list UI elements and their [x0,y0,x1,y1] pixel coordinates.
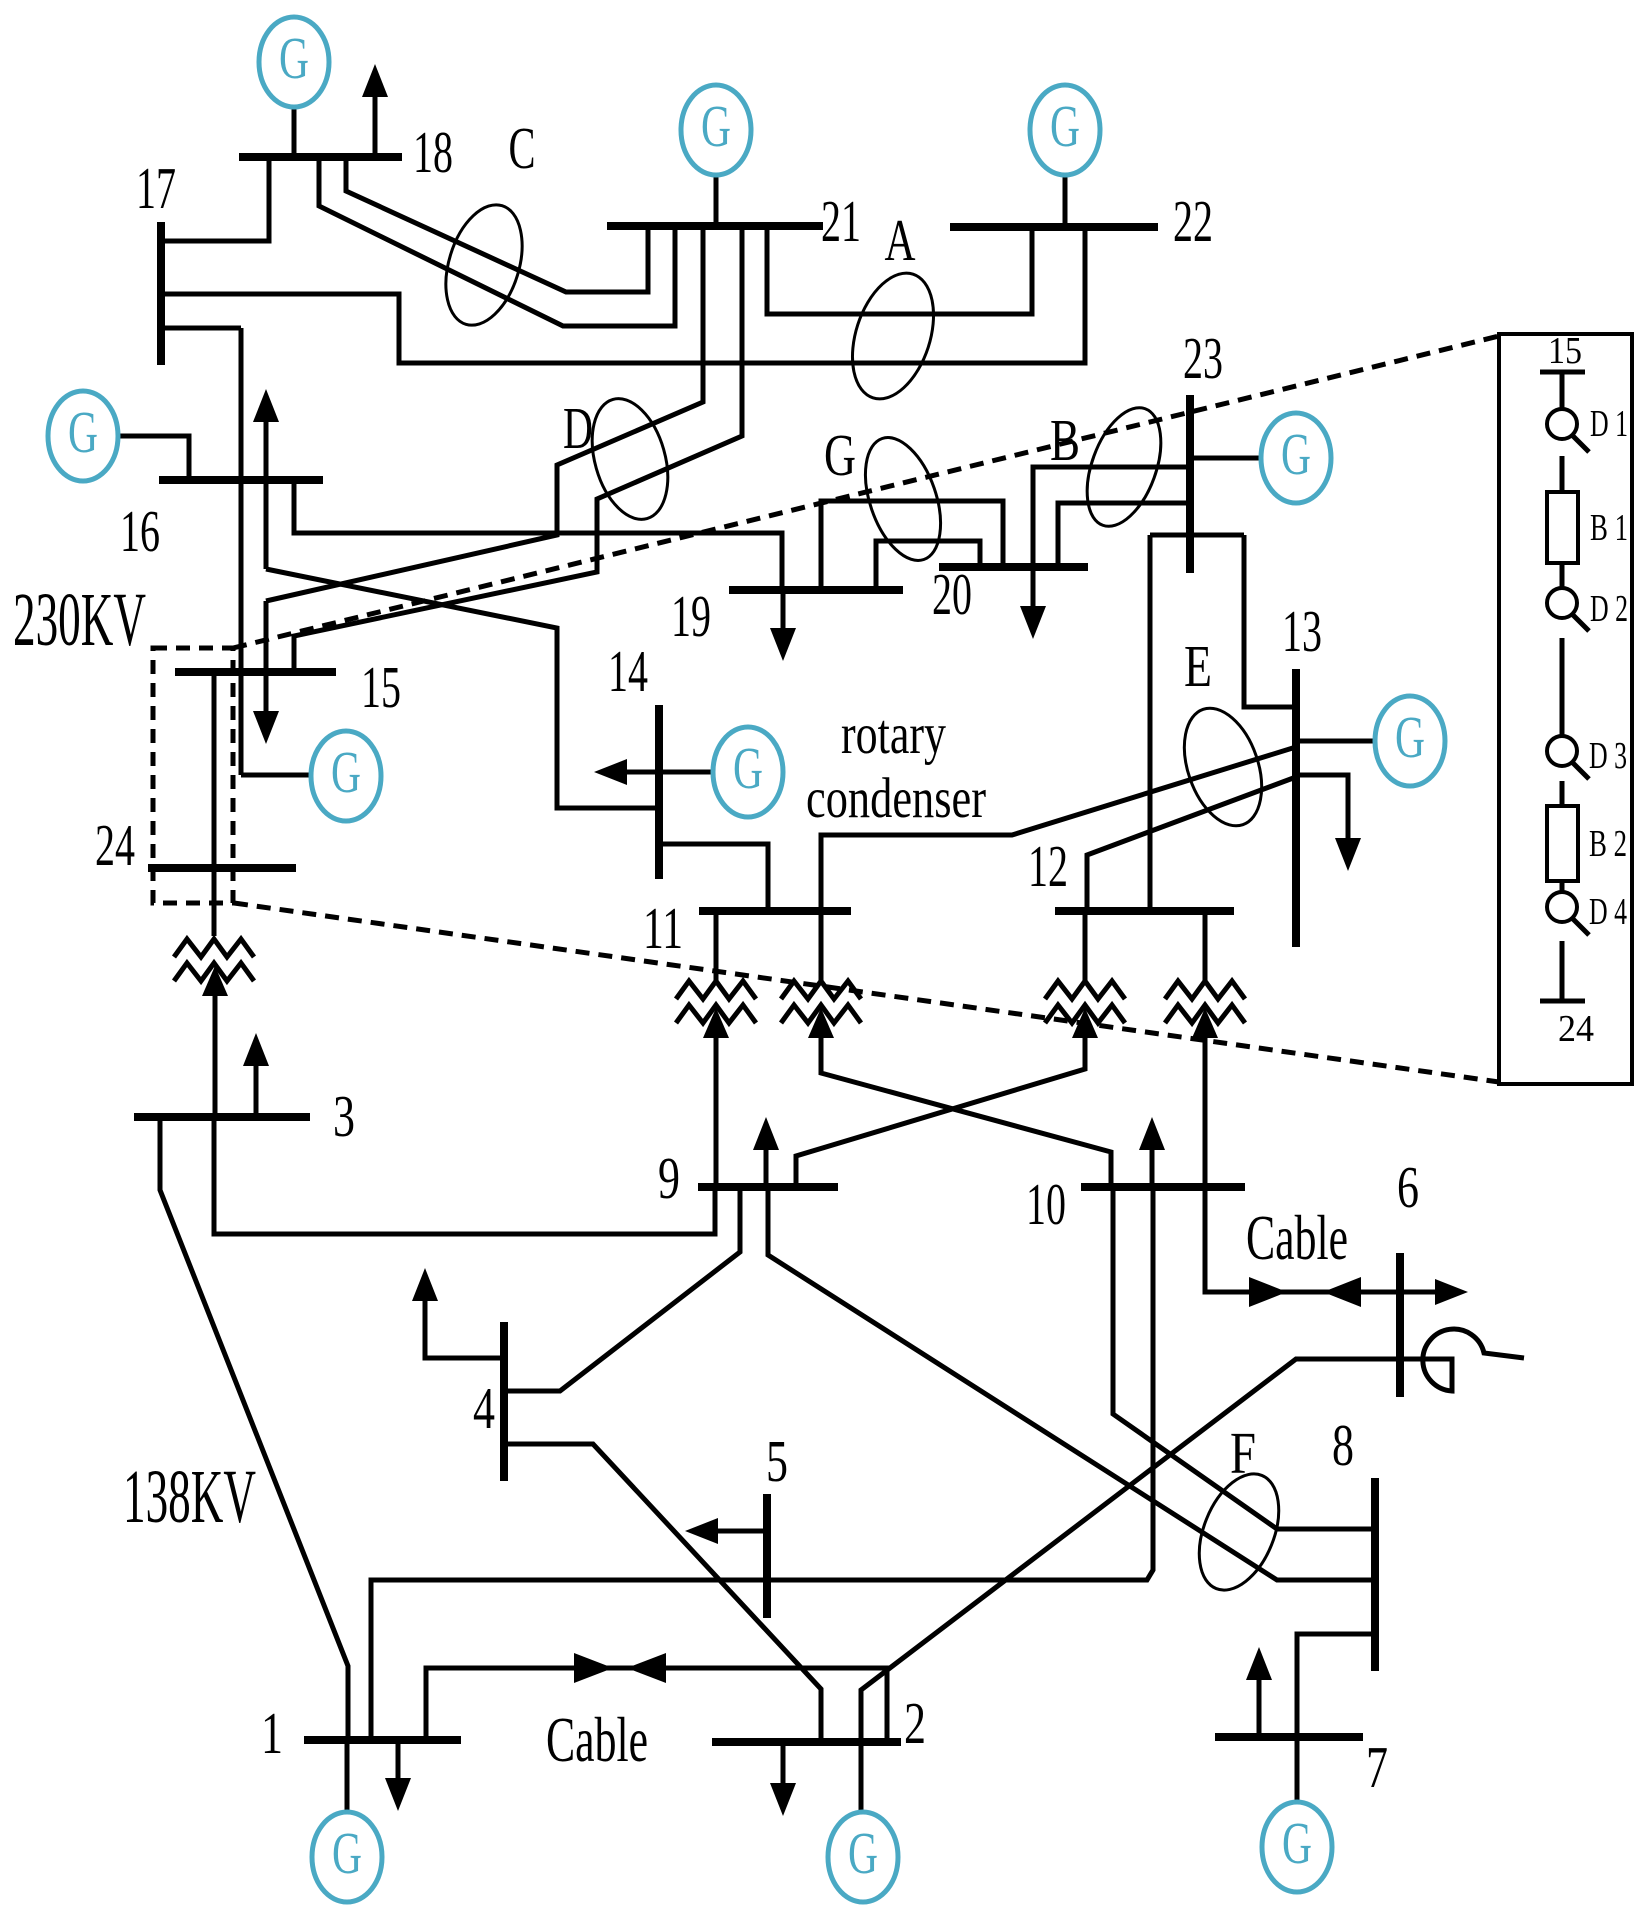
fault ellipse A [838,263,949,410]
bus 21 [607,222,823,230]
generator G at bus 13 [1375,696,1445,786]
wire 8-9 [768,1187,1375,1580]
svg-text:24: 24 [1558,1008,1594,1050]
svg-text:24: 24 [95,812,135,878]
svg-text:rotary: rotary [841,703,946,766]
generator G at bus 7 [1262,1802,1332,1892]
wire 16-17 vertical continuing to generator elbow at bus 15 [239,328,244,775]
svg-text:3: 3 [333,1083,355,1149]
wire 11-13 [821,747,1296,911]
wire 15-24 [212,672,217,936]
svg-text:G: G [1395,704,1425,770]
load arrow bus 3 [254,1063,259,1117]
wire 16-17 horizontal [161,326,241,331]
svg-text:B 1: B 1 [1590,507,1628,549]
generator G at bus 22 lead [1063,172,1068,227]
wire 19-20 circuit 2 [876,541,980,590]
svg-text:B: B [1050,407,1080,473]
transformer 10-11 stub [819,911,824,981]
wire 2-4 [504,1444,821,1742]
generator G at bus 21 [681,85,751,175]
bus 6 [1396,1253,1404,1397]
svg-text:D 3: D 3 [1589,735,1627,777]
transformer 10-12 windings [1165,981,1245,1023]
cable 1-2 arrow left-pointing [627,1653,666,1683]
svg-text:G: G [733,735,763,801]
generator G at bus 13 lead [1296,739,1377,744]
svg-text:G: G [1050,93,1080,159]
svg-text:20: 20 [932,561,972,627]
cable 1-2 arrow right-pointing [574,1653,613,1683]
load arrow bus 1 [396,1740,401,1781]
transformer 9-11 windings [676,981,756,1023]
inset detail box [1499,334,1632,1084]
load arrow bus 7 [1257,1680,1262,1737]
svg-text:F: F [1230,1420,1256,1486]
svg-text:6: 6 [1397,1154,1419,1220]
generator G at bus 1 [312,1812,382,1902]
transformer 10-11 arrow [808,1008,834,1038]
svg-text:G: G [1282,1810,1312,1876]
wire 17-18 [161,159,269,241]
wire 18-21 circuit 1 [346,159,648,292]
generator G at bus 23 lead [1190,456,1263,461]
inset bus 15 stub [1540,370,1585,375]
load arrow bus 2 [781,1742,786,1786]
svg-text:7: 7 [1366,1734,1388,1800]
load arrow bus 13 [1296,775,1348,841]
load arrow bus 14 (left) [624,770,659,775]
wire 20-23 circuit 1 [1033,467,1190,567]
svg-text:23: 23 [1183,325,1223,391]
svg-text:D 2: D 2 [1590,588,1628,630]
svg-text:17: 17 [136,155,176,221]
generator G at bus 1 lead [345,1740,350,1814]
bus 10 [1081,1183,1245,1191]
inset wire D4 to node 24 [1560,941,1565,1001]
bus 24 [148,864,296,872]
wire 12-13 [1087,777,1296,911]
transformer 24-3 windings [174,939,254,981]
svg-text:D 1: D 1 [1590,403,1628,445]
transformer 9-11 stub [714,911,719,981]
wire 9-12 lower [796,1038,1085,1187]
svg-text:G: G [279,25,309,91]
transformer 9-12 windings [1045,981,1125,1023]
wire 16-19 [294,480,782,590]
cable 6-10 arrow left-pointing [1323,1277,1361,1307]
rotary condenser G at bus 14 lead [659,770,715,775]
svg-text:22: 22 [1173,188,1213,254]
load arrow bus 19 [781,590,786,631]
bus 16 [159,476,323,484]
generator G at bus 18 lead [292,104,297,157]
load arrow bus 15 [264,672,269,714]
bus 14 [655,705,663,879]
svg-text:10: 10 [1026,1171,1066,1237]
svg-text:5: 5 [766,1428,788,1494]
wire 15-21a vertical into bus 15 [264,601,269,672]
svg-text:G: G [332,1820,362,1886]
svg-text:230KV: 230KV [13,578,146,662]
svg-text:15: 15 [361,654,401,720]
transformer 10-11 windings [781,981,861,1023]
transformer 10-12 stub [1203,911,1208,981]
bus 12 [1055,907,1234,915]
bus 9 [698,1183,838,1191]
cable 6-10 arrow right-pointing [1249,1277,1287,1307]
svg-text:1: 1 [261,1700,283,1766]
bus 23 [1186,395,1194,573]
svg-text:9: 9 [658,1145,680,1211]
svg-text:16: 16 [120,498,160,564]
wire 20-23 circuit 2 [1058,503,1190,567]
inset switch D4 [1547,892,1589,935]
wire 15-21 circuit a (via D) [266,228,703,601]
fault ellipse G [851,428,955,571]
load arrow bus 6 (right) [1400,1290,1438,1295]
wire 5-10 and 1-5 [371,1187,1153,1740]
svg-text:11: 11 [643,895,683,961]
bus 1 [304,1736,461,1744]
svg-text:8: 8 [1332,1412,1354,1478]
generator G at bus 2 lead [859,1742,864,1814]
load arrow bus 18 [373,94,378,157]
bus 11 [699,907,851,915]
bus 4 [500,1322,508,1481]
svg-text:G: G [701,93,731,159]
fault ellipse C [432,195,535,334]
bus 17 [157,222,165,365]
svg-text:G: G [824,422,856,488]
cable 1-2 [426,1668,887,1742]
wire 1-3 [160,1117,348,1740]
svg-text:G: G [1281,421,1311,487]
generator G at bus 23 [1261,413,1331,503]
svg-text:C: C [509,115,536,181]
generator G at bus 21 lead [714,172,719,226]
wire 2-6 [861,1359,1400,1742]
generator G at bus 15 [311,731,381,821]
transformer 9-12 stub [1083,911,1088,981]
inset switch D2 [1547,588,1589,631]
transformer 24-3 arrow [202,966,228,996]
wire 17-22 [161,229,1085,363]
inset switch D3 [1547,736,1589,779]
svg-text:B 2: B 2 [1589,823,1627,865]
dashed zoom link upper [233,336,1499,648]
svg-text:4: 4 [473,1375,495,1441]
bus 18 [239,153,402,161]
synchronous condenser symbol at bus 6 [1400,1329,1524,1391]
inset resistor B2 [1547,806,1578,881]
svg-text:13: 13 [1282,598,1322,664]
bus 5 [763,1494,771,1618]
svg-text:Cable: Cable [1246,1203,1348,1273]
svg-text:138KV: 138KV [123,1455,256,1539]
generator G at bus 18 [259,17,329,107]
wire 21-22 [767,228,1032,314]
transformer 9-12 arrow [1072,1008,1098,1038]
svg-text:15: 15 [1548,330,1582,372]
inset switch D1 [1547,409,1589,452]
load arrow bus 10 [1150,1150,1155,1187]
svg-text:G: G [848,1820,878,1886]
svg-text:E: E [1184,633,1212,699]
wire 7-8 [1297,1634,1375,1737]
svg-text:G: G [68,399,98,465]
bus 19 [729,586,903,594]
fault ellipse F [1184,1462,1295,1601]
rotary condenser G at bus 14 [713,727,783,817]
bus 8 [1371,1478,1379,1671]
transformer 9-11 arrow [703,1008,729,1038]
inset wire B2 to D4 [1560,881,1565,893]
bus 20 [939,563,1088,571]
inset wire 15 to D1 [1560,372,1565,410]
wire 8-10 [1113,1187,1375,1529]
bus 7 [1215,1733,1363,1741]
generator G at bus 16 lead [116,436,189,480]
generator G at bus 15 lead [241,773,313,778]
svg-text:condenser: condenser [806,767,986,830]
wire 4-9 [504,1187,740,1391]
transformer 10-12 arrow [1192,1008,1218,1038]
bus 15 [175,668,336,676]
svg-text:D 4: D 4 [1589,891,1627,933]
inset resistor B1 [1547,492,1578,563]
svg-text:Cable: Cable [546,1705,648,1775]
svg-text:19: 19 [671,583,711,649]
bus 13 [1292,669,1300,947]
generator G at bus 7 lead [1295,1737,1300,1804]
svg-text:D: D [563,395,593,461]
dashed zoom rectangle around buses 15-24 [153,648,233,903]
wire 18-21 circuit 2 [319,159,675,326]
wire 15-21 circuit b (via D) [294,228,742,672]
inset wire D2 to D3 [1560,638,1565,736]
fault ellipse B [1073,398,1176,536]
svg-text:12: 12 [1028,833,1068,899]
svg-text:G: G [331,739,361,805]
fault ellipse D [579,390,680,528]
svg-text:18: 18 [413,119,453,185]
svg-text:2: 2 [904,1690,926,1756]
generator G at bus 2 [828,1812,898,1902]
load arrow bus 20 [1031,567,1036,609]
inset wire D3 to B2 [1560,781,1565,806]
wire 14-16 [264,480,269,569]
load arrow bus 9 [764,1150,769,1187]
cable 6-10 [1205,1187,1400,1292]
inset wire B1 to D2 [1560,563,1565,589]
svg-text:21: 21 [821,188,861,254]
wire 3-9 [214,1117,715,1234]
dashed zoom link lower [234,903,1499,1082]
bus 3 [134,1113,310,1121]
inset bus 24 stub [1540,999,1585,1004]
wire 10-11 lower [821,1038,1111,1187]
bus 22 [950,223,1158,231]
wire 12-23 [1150,533,1244,538]
svg-text:A: A [885,207,916,273]
load arrow bus 5 (left) [715,1529,767,1534]
generator G at bus 16 [48,391,118,481]
wire 13-23 [1244,535,1296,707]
wire 11-14 [659,844,768,911]
svg-text:14: 14 [608,638,648,704]
load arrow bus 4 [425,1298,504,1358]
bus 2 [712,1738,901,1746]
fault ellipse E [1170,698,1276,836]
load arrow bus 16 [264,419,269,480]
inset wire D1 to B1 [1560,456,1565,492]
generator G at bus 22 [1030,85,1100,175]
wire 19-20 circuit 1 [821,501,1003,590]
